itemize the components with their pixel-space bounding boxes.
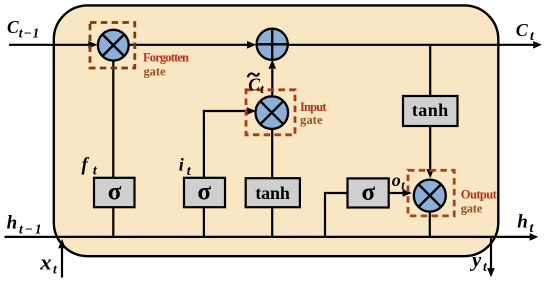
svg-text:tanh: tanh	[412, 100, 448, 120]
svg-text:Output: Output	[461, 188, 498, 202]
svg-text:t: t	[53, 262, 58, 277]
svg-text:t: t	[483, 259, 488, 274]
svg-text:t: t	[530, 221, 535, 236]
svg-text:gate: gate	[461, 201, 483, 215]
svg-text:i: i	[179, 155, 184, 175]
svg-text:σ: σ	[361, 179, 375, 206]
svg-text:x: x	[39, 250, 51, 275]
svg-text:Forgotten: Forgotten	[143, 51, 189, 65]
svg-text:C: C	[248, 74, 260, 94]
svg-text:σ: σ	[108, 178, 122, 205]
svg-text:o: o	[392, 170, 401, 190]
svg-text:gate: gate	[144, 64, 166, 78]
svg-text:t−1: t−1	[19, 222, 44, 237]
svg-text:t: t	[401, 178, 405, 192]
svg-text:tanh: tanh	[255, 183, 290, 203]
svg-text:h: h	[517, 212, 528, 233]
svg-text:h: h	[7, 213, 18, 234]
svg-text:gate: gate	[300, 113, 323, 127]
svg-text:C: C	[7, 17, 19, 37]
svg-text:C: C	[516, 20, 529, 40]
svg-text:t: t	[260, 82, 264, 96]
svg-text:t−1: t−1	[19, 26, 40, 41]
svg-text:Input: Input	[300, 100, 327, 114]
svg-text:σ: σ	[197, 178, 211, 205]
